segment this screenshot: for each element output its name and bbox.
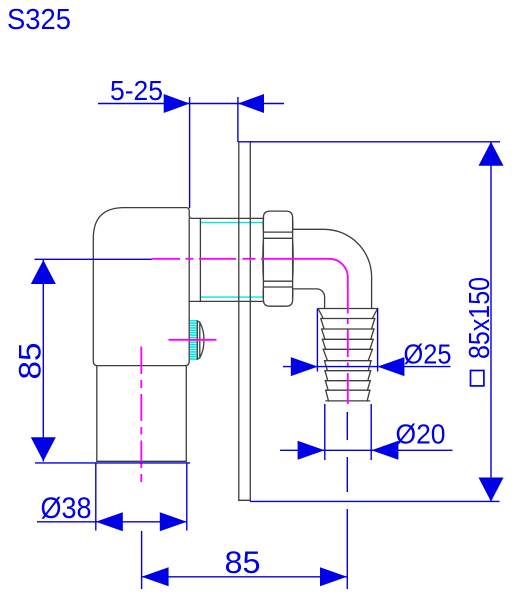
svg-text:S325: S325 xyxy=(7,4,71,36)
svg-text:85: 85 xyxy=(225,544,261,580)
svg-text:5-25: 5-25 xyxy=(110,75,163,106)
svg-text:85: 85 xyxy=(12,343,48,380)
svg-text:Ø38: Ø38 xyxy=(41,492,92,525)
svg-text:85x150: 85x150 xyxy=(464,277,496,359)
svg-text:Ø20: Ø20 xyxy=(396,419,446,450)
svg-text:Ø25: Ø25 xyxy=(404,339,452,370)
